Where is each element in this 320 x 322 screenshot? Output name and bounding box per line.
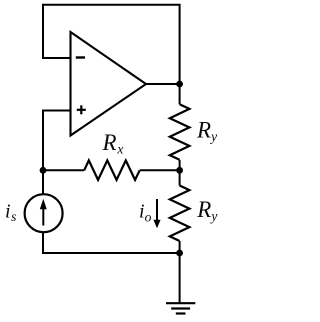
wire noninverting input	[42, 110, 71, 112]
wire current source top stub	[42, 170, 44, 194]
op-amp plus pin label	[77, 105, 86, 114]
wire left rail (noninverting input down to node B)	[42, 110, 44, 171]
wire op-amp output	[146, 83, 180, 85]
node C (right mid node)	[176, 167, 183, 174]
current arrow io	[153, 199, 160, 228]
svg-text:Ry: Ry	[196, 197, 217, 224]
wire current source bottom stub	[43, 232, 180, 253]
op-amp U1	[71, 32, 147, 136]
node D (bottom right node)	[176, 250, 183, 257]
svg-text:Rx: Rx	[102, 130, 124, 157]
wire feedback loop (output to inverting input)	[43, 5, 180, 84]
resistor Ry (top)	[170, 84, 190, 170]
svg-text:is: is	[5, 201, 16, 225]
wire ground drop	[179, 253, 181, 303]
op-amp minus pin label	[76, 56, 85, 58]
resistor Ry (bottom)	[170, 170, 190, 253]
node B (left mid node)	[40, 167, 47, 174]
svg-text:io: io	[139, 200, 152, 224]
wire inverting input	[42, 57, 71, 59]
ground	[166, 303, 195, 313]
resistor Rx	[43, 160, 180, 180]
current source is	[25, 194, 63, 232]
svg-text:Ry: Ry	[196, 117, 217, 144]
node A (output node)	[176, 81, 183, 88]
